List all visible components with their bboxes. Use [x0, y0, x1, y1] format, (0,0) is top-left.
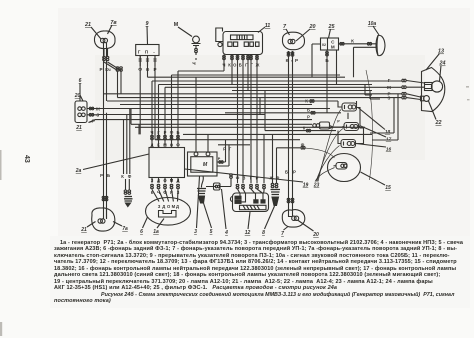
relay 9 pins [140, 56, 155, 67]
turn signal lamp 7a (top left) [94, 31, 115, 49]
headlamp 13 housing [422, 68, 445, 112]
wire bus horizontal runs [95, 71, 402, 148]
horn 10а [376, 35, 385, 55]
legend text block [54, 240, 469, 305]
scan artifacts [0, 86, 470, 336]
switch 19 bottom pins [152, 178, 178, 183]
connectors under 7 [287, 52, 290, 54]
transformer 3 box М [188, 152, 218, 176]
connector block near 17 [320, 122, 330, 129]
suppressor cap 4 [206, 178, 231, 187]
handlebar switch 12 [233, 193, 269, 212]
horn wires [354, 46, 377, 48]
transformer top pins [194, 152, 198, 156]
flasher relay 9 box [136, 45, 159, 56]
indicator lamp 16 [341, 140, 356, 148]
filter wires [312, 43, 376, 45]
headlamp feed wires [407, 81, 425, 100]
page number 43 [16, 155, 30, 169]
plug symbol [124, 197, 133, 202]
turn signal lamp 7а (bottom left) [92, 208, 115, 231]
cable loom curve [366, 70, 373, 180]
switch 12 pin connectors [236, 184, 239, 186]
generator 1а [146, 198, 191, 226]
headlamp connectors [402, 79, 404, 82]
filter 25 box [321, 38, 339, 50]
connector arrows Ж З Р [87, 109, 99, 115]
switch symbol (М) [193, 36, 200, 43]
wire pair from 7a down [104, 48, 108, 57]
switch 19 top pins [152, 71, 178, 141]
handlebar switch 11 body [223, 32, 263, 55]
generator coil bracket [159, 211, 177, 218]
turn signal lamp 7 (top right) [282, 32, 304, 50]
switch 11 pins [224, 55, 257, 67]
wire right side bends [365, 95, 398, 140]
speedometer 15 [328, 154, 361, 182]
wire inside [105, 209, 108, 219]
wire bends into lamp 18 [348, 101, 360, 127]
switch 11 left loop wire [216, 28, 223, 42]
wires К Ф down to plug [124, 109, 130, 175]
connectors on pair [102, 196, 105, 198]
indicator lamp 18 [342, 103, 357, 111]
central switch 19 box [149, 148, 185, 178]
pilot lamp unit 6 (left) [75, 101, 87, 123]
speedometer lamp 23 [336, 163, 347, 170]
connector pair on 7a wires [103, 56, 106, 58]
headlamp bulb 24 [431, 81, 442, 92]
stoplight switch 8 [271, 183, 274, 185]
pilot lamp 22 [424, 96, 430, 102]
connectors on lamp feed lines [310, 100, 312, 103]
wire branch diagonals [104, 62, 121, 71]
wire bus vertical runs [104, 43, 399, 219]
turn signal lamp 7 (bottom right) [282, 210, 305, 227]
Р Г wires [226, 140, 230, 166]
high voltage lead and spark plug 5 [201, 176, 203, 188]
indicator lamp 17 [344, 123, 359, 131]
scan veil [58, 8, 470, 236]
